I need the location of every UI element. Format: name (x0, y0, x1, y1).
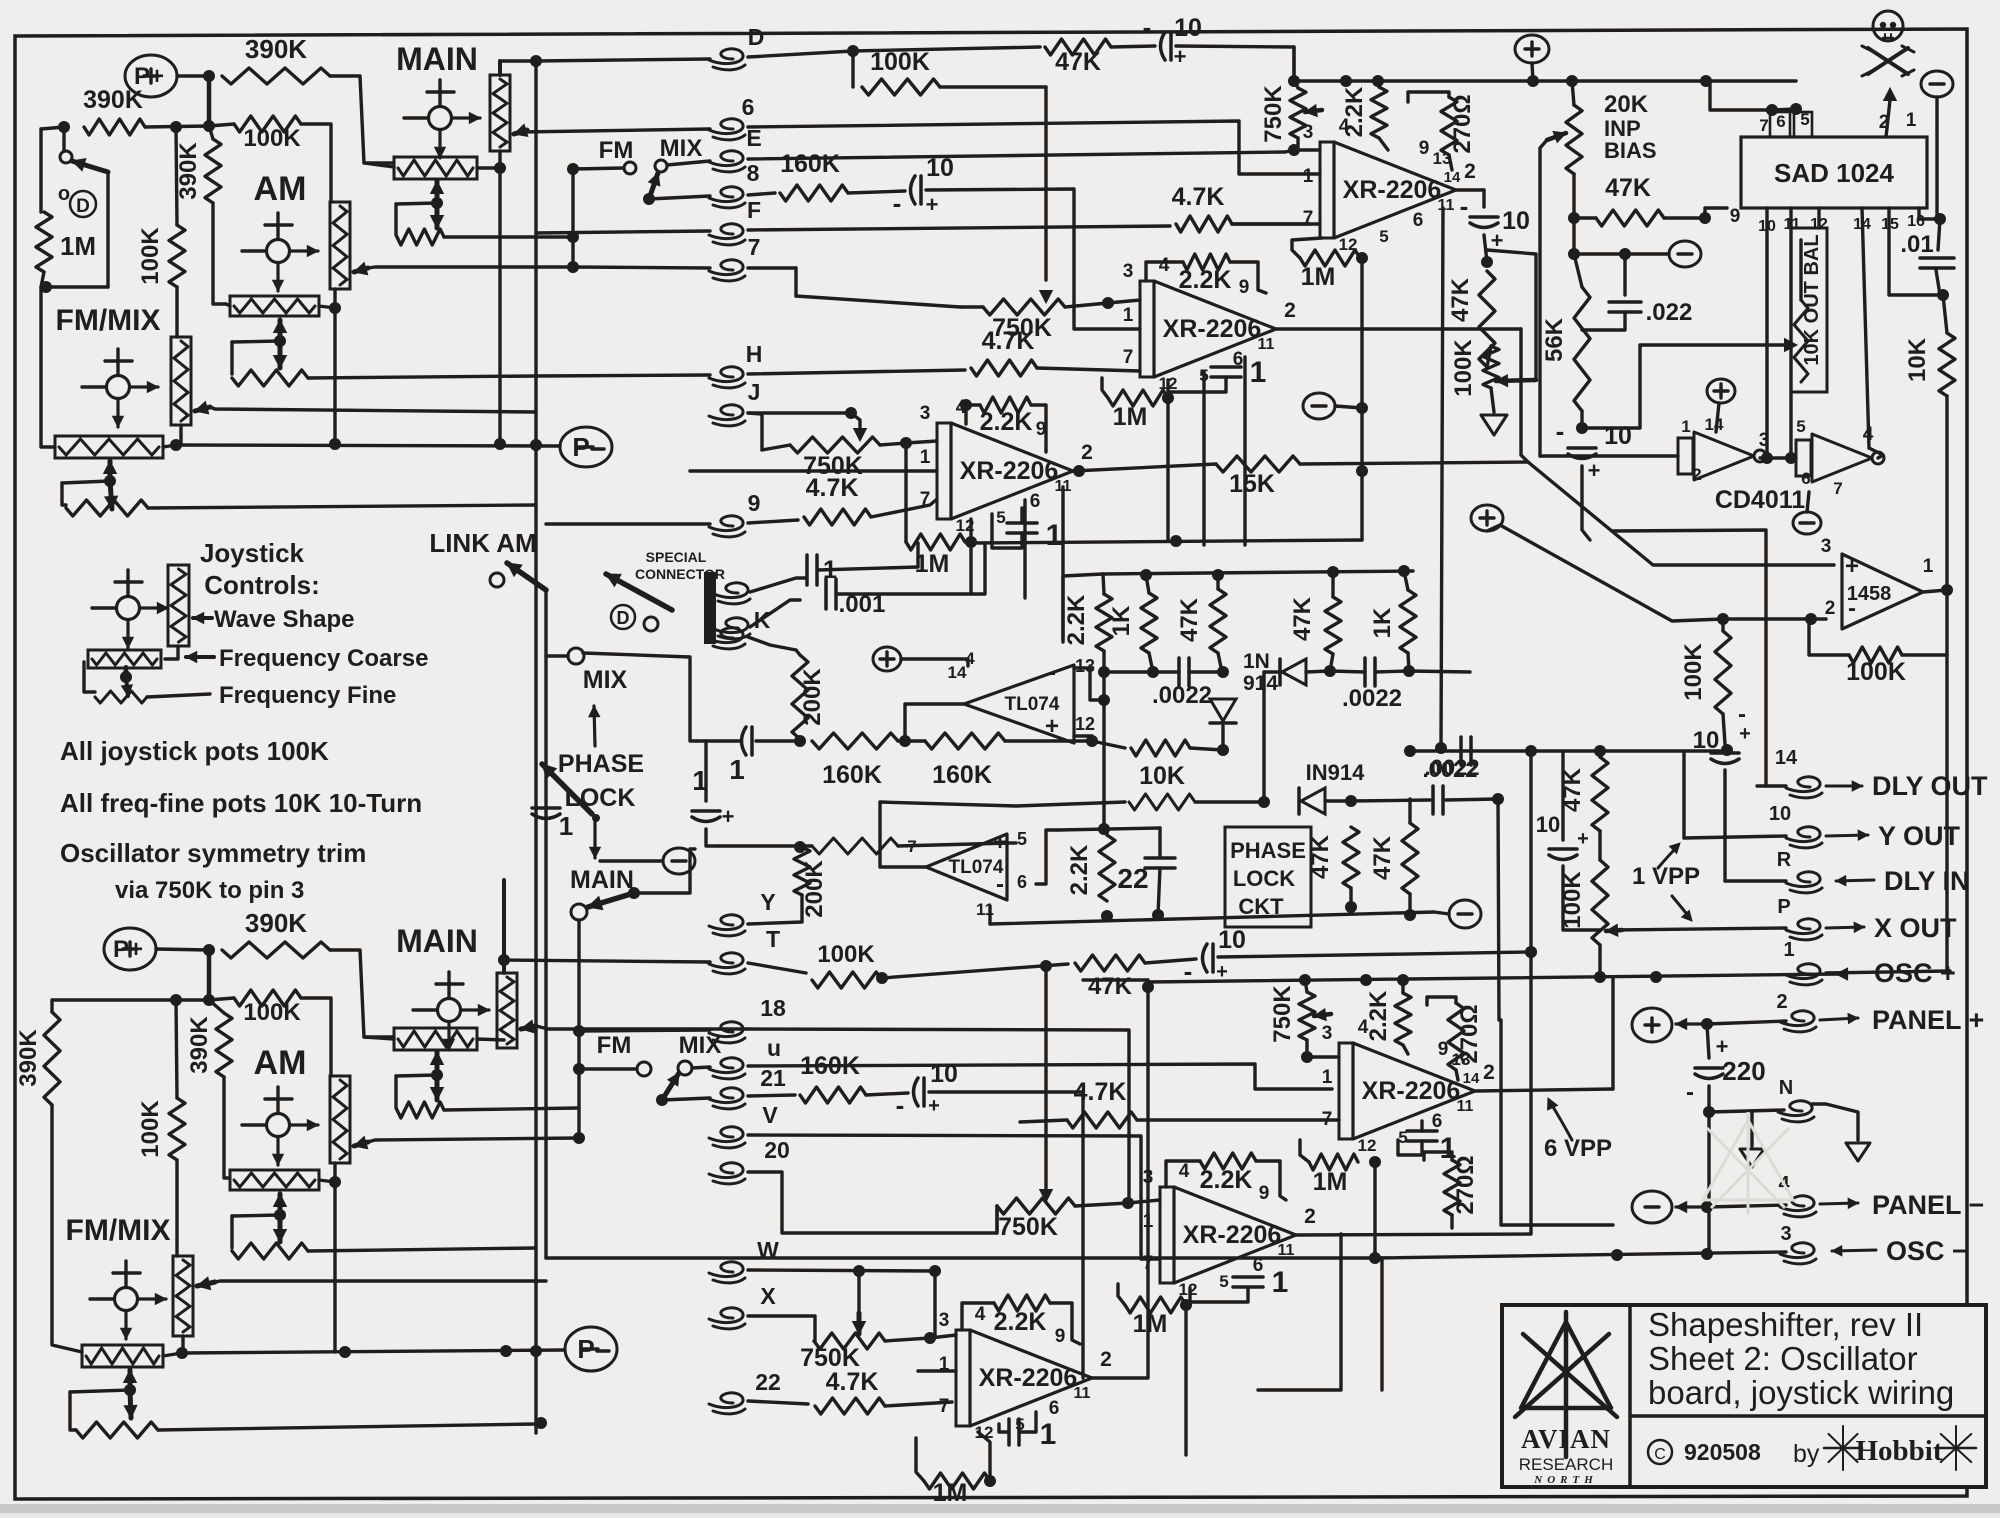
resistor 1M (U1) (1300, 250, 1360, 266)
phase lock bottom bus (990, 912, 1434, 924)
power node P+ (B) (104, 928, 156, 970)
pot MAIN vert wiper arrow (A) (514, 130, 527, 134)
node bus4 (1527, 75, 1539, 87)
wire panel+ row (1707, 1021, 1786, 1024)
wire 100K-Av down to FM/MIX pot (175, 287, 178, 337)
node bank bot3 (1324, 665, 1336, 677)
wire U1 cap down (1482, 190, 1485, 207)
pot 100K-U1 wiper arrow (1496, 380, 1536, 381)
svg-text:100K: 100K (137, 227, 164, 285)
node T2 (1525, 946, 1537, 958)
svg-text:MIX: MIX (583, 666, 628, 694)
wire x1531 down (1529, 751, 1532, 1234)
svg-text:7: 7 (1123, 347, 1134, 368)
wire FM-B to x579 (579, 1067, 637, 1070)
wire 1M loop left side (41, 127, 64, 129)
svg-text:47K: 47K (1176, 597, 1203, 642)
wire dly cap chain (1723, 714, 1725, 744)
wire AM wiper down-arrow (A) (278, 341, 283, 368)
node cap022 (1619, 248, 1631, 260)
op-amp XR-2206 U6 (1339, 1043, 1353, 1139)
svg-text:-: - (1848, 595, 1856, 622)
node osc-c (1701, 1248, 1713, 1260)
connector hook X (709, 1308, 743, 1323)
wire SAD pin11 down (1789, 208, 1792, 452)
wire AM vert pot down (333, 308, 336, 443)
svg-text:1M: 1M (1301, 263, 1336, 291)
resistor 1M (U3) (906, 534, 965, 550)
connector hook H (709, 367, 743, 382)
long vertical wire x546 (544, 592, 547, 1258)
logo star diag2 (1515, 1334, 1609, 1417)
pot 100K FM/MIX vertical (B) (173, 1256, 193, 1336)
arrow MAIN down (593, 818, 596, 858)
wire J-row to FM/MIX wiper (210, 407, 536, 412)
svg-text:1: 1 (1440, 1132, 1457, 1165)
special connector body (704, 572, 716, 644)
svg-text:2: 2 (1081, 441, 1093, 464)
wire XR1 pin11 down (1441, 208, 1443, 748)
wire MAIN pot top to top wire (498, 61, 502, 75)
svg-text:750K: 750K (992, 314, 1052, 342)
wire 100k-r wiper (1612, 928, 1622, 931)
node bank bot1 (1098, 666, 1110, 678)
resistor 2.2K (U2 fb) (1183, 254, 1230, 270)
cap 1 (K row) (750, 727, 754, 755)
svg-text:4.7K: 4.7K (1172, 183, 1225, 211)
svg-text:OSC −: OSC − (1886, 1236, 1968, 1266)
svg-text:E: E (746, 125, 761, 151)
wire 1458 out down (1945, 655, 1948, 971)
cap 1 (U3) (1007, 521, 1037, 525)
wire corner 1341 (1258, 1234, 1341, 1390)
switch MIX contact (568, 648, 584, 664)
wire U5 pin1 stub (918, 1369, 956, 1372)
svg-text:1: 1 (1681, 417, 1690, 436)
node pl2 (1217, 666, 1229, 678)
wire 47K-c bottom (1349, 888, 1352, 908)
svg-text:10: 10 (1218, 926, 1246, 954)
switch MIX contact (A) (655, 160, 667, 172)
svg-text:2.2K: 2.2K (994, 1308, 1047, 1336)
resistor 160K a (812, 733, 898, 749)
op-amp XR-2206 U4 (1160, 1187, 1174, 1283)
resistor 4.7K (F row) (1176, 216, 1232, 232)
connector hook lower (714, 618, 748, 633)
node U2m (1356, 402, 1368, 414)
resistor 2.2K (bank) (1096, 594, 1112, 651)
svg-text:1N: 1N (1243, 650, 1270, 673)
wire FM/MIX loop top (A) (62, 481, 110, 483)
hook PANEL+ (1780, 1011, 1814, 1026)
wire 4.7K-U6 left (1020, 1120, 1067, 1122)
wire MAIN lower loop (A) (396, 204, 397, 237)
svg-text:14: 14 (948, 663, 967, 682)
resistor 1K (bank a) (1141, 593, 1157, 653)
bus P- (A) (176, 445, 560, 446)
svg-text:750K: 750K (800, 1344, 860, 1372)
svg-text:200K: 200K (801, 860, 828, 918)
wire AM-B vert line down (333, 1182, 336, 1352)
resistor 160K (21 row) (800, 1087, 866, 1103)
svg-text:100K: 100K (137, 1100, 164, 1158)
node 56K bot (1576, 422, 1588, 434)
svg-text:390K: 390K (83, 86, 143, 114)
svg-text:100K: 100K (870, 48, 930, 76)
wire P+ to node (177, 74, 209, 77)
svg-text:1M: 1M (60, 231, 96, 261)
svg-text:3: 3 (1780, 1223, 1791, 1245)
svg-text:12: 12 (1075, 714, 1095, 734)
wire 750K-U5 arrow (857, 1313, 862, 1334)
node osc4 (1650, 971, 1662, 983)
connector hook 8 (709, 187, 743, 202)
wire TL074B pin6 (1036, 830, 1058, 884)
wire U2 out down (1521, 329, 1528, 462)
cap .0022 c (1431, 786, 1435, 814)
connector hook Y (709, 915, 743, 930)
resistor 100K (B top horizontal) (234, 990, 301, 1006)
svg-text:BIAS: BIAS (1604, 138, 1657, 163)
cap .0022 a (1177, 658, 1181, 686)
minus node (U2 area) (1303, 393, 1335, 419)
wire 220 chain (1707, 1024, 1709, 1058)
wire cap01 down (1936, 270, 1940, 295)
wire 2.2K-U4 left (1166, 1161, 1200, 1187)
node pnl1 (1701, 1018, 1713, 1030)
pot FM/MIX wiper arrow up (A) (108, 461, 113, 481)
OSC+ bus (1083, 978, 1148, 981)
wire 270-U4 top loop (1424, 1152, 1452, 1160)
wire 10K to diode node (1190, 748, 1223, 750)
wire 2.2K-U2 left (1146, 262, 1183, 281)
wire row D to 47K (853, 47, 1040, 51)
switch lever (A2) (649, 173, 658, 199)
power + (top) (1515, 35, 1549, 63)
cap .0022 b (1363, 658, 1367, 686)
node chain bot (1594, 971, 1606, 983)
node tlA12 (1086, 735, 1098, 747)
wire row802 to right block (1446, 799, 1498, 800)
svg-text:7: 7 (907, 837, 916, 856)
wire 4.7K-H to XR2 pin7 (1037, 368, 1140, 371)
pot 750K (U5) (814, 1333, 885, 1349)
svg-text:TL074: TL074 (1005, 694, 1060, 715)
node plb2 (1152, 909, 1164, 921)
resistor 56K (1574, 287, 1590, 411)
wire 8 row right (926, 189, 1140, 329)
svg-text:MAIN: MAIN (396, 923, 478, 959)
op-amp TL074 B (926, 834, 1007, 900)
wire 47K-sad right (1664, 216, 1705, 219)
svg-text:750K: 750K (998, 1213, 1058, 1241)
svg-text:.0022: .0022 (1342, 685, 1402, 712)
svg-text:10: 10 (1502, 207, 1530, 235)
node osc2 (1360, 974, 1372, 986)
wire TL074B pin11 down (988, 906, 991, 924)
svg-text:3: 3 (1821, 536, 1832, 557)
wire MAIN bottom row right (444, 235, 573, 238)
wire 750K-U2 to pin3 (1065, 303, 1108, 307)
wire U5 output (1092, 987, 1148, 1378)
resistor 2.2K (U5 fb) (994, 1295, 1050, 1311)
node x573 a1 (567, 163, 579, 175)
wire 750K-U1 bottom to pin3 (1296, 138, 1299, 150)
wire 56K top (1574, 254, 1582, 287)
svg-text:1K: 1K (1369, 607, 1396, 638)
wire node B1 down (207, 950, 212, 1000)
wire X OUT (1612, 928, 1786, 930)
wire AM loop top (A) (232, 341, 280, 342)
resistor 100K (A left vertical) (169, 225, 185, 287)
svg-text:SAD 1024: SAD 1024 (1774, 158, 1894, 188)
wire 1K-b bottom (1408, 653, 1409, 671)
wire row802 right (1351, 800, 1430, 801)
resistor 2.2K (U3 fb) (980, 397, 1031, 413)
svg-text:9: 9 (1259, 1183, 1270, 1204)
wire pin3 row U1 (1294, 148, 1320, 151)
wire TL074A pin13 (1074, 668, 1104, 700)
node A3 (58, 121, 70, 133)
wire .0022b (1330, 671, 1365, 672)
svg-text:47K: 47K (1088, 973, 1133, 1000)
wire row E (667, 161, 710, 165)
svg-text:5: 5 (1017, 829, 1027, 849)
svg-text:P: P (577, 1334, 594, 1364)
wire AM lower loop (A) (230, 342, 233, 374)
resistor 200K (K) (792, 655, 808, 739)
svg-text:7: 7 (920, 489, 931, 510)
wire node A1 down (207, 76, 212, 126)
node T1 (876, 972, 888, 984)
svg-text:Controls:: Controls: (204, 570, 320, 600)
wire AM-B pot right to vert pot (319, 1163, 335, 1182)
wire MAIN loop top (A) (396, 203, 437, 204)
wire row D (536, 59, 710, 61)
svg-text:+: + (1577, 828, 1589, 850)
svg-text:4: 4 (1179, 1161, 1190, 1182)
wire J hook to 750K-U3 (748, 413, 762, 414)
svg-text:PHASE: PHASE (1230, 838, 1306, 863)
wire FM/MIX lower loop (A) (62, 483, 66, 505)
pot 750K (U2) (983, 299, 1065, 315)
node A6 (329, 302, 341, 314)
svg-text:270Ω: 270Ω (1449, 94, 1476, 153)
legend pot freq coarse (88, 650, 161, 668)
pot 20K wiper arrow (1547, 133, 1566, 140)
wire 10K-r bottom (1945, 396, 1948, 590)
wire cap1-U5 (999, 1424, 1008, 1432)
capacitor 1 (link) (532, 806, 560, 810)
wire row 6 right (748, 121, 1320, 174)
wire MAIN hpot left lead (364, 163, 394, 167)
arrow 1vpp a (1658, 846, 1678, 868)
svg-text:22: 22 (755, 1369, 781, 1395)
title block divider vertical (1628, 1305, 1632, 1487)
pot 750K (U3) (790, 437, 880, 453)
joystick AM (B) (267, 1114, 290, 1137)
node U1c (1481, 256, 1493, 268)
SAD pin tabs (1770, 112, 1790, 137)
resistor 1M (U6) (1309, 1154, 1358, 1170)
svg-text:o: o (58, 183, 70, 205)
svg-text:D: D (748, 24, 765, 50)
svg-text:3: 3 (939, 1310, 950, 1331)
wire 2.2K-U2 right (1230, 262, 1266, 293)
wire pin5 U2 down (1202, 372, 1205, 545)
svg-text:160K: 160K (780, 150, 840, 178)
wire 390K-Bm top (209, 1000, 224, 1013)
wire x1499 vert (1498, 799, 1499, 1020)
wire D row to bus (1176, 46, 1294, 81)
resistor 1M (U2) (1108, 390, 1168, 406)
wire corner 1382 (1380, 1258, 1383, 1390)
svg-text:+: + (1845, 553, 1859, 580)
wire 750K-U6 top (1305, 980, 1307, 992)
wire T row mid (882, 964, 1068, 978)
svg-text:H: H (746, 341, 763, 367)
node sadt1 (1766, 104, 1778, 116)
node bk1 (1140, 569, 1152, 581)
wire 2.2K-U1 top (1378, 81, 1379, 87)
resistor 390K (A mid vertical) (205, 139, 221, 203)
svg-text:10: 10 (926, 154, 954, 182)
op-amp XR-2206 U3 (937, 423, 951, 519)
node pnl2 (1701, 1201, 1713, 1213)
wire 1M left vertical (39, 129, 42, 212)
wire FM/MIX wiper down arrow (A) (110, 481, 112, 509)
svg-text:K: K (754, 607, 771, 633)
title block divider horizontal (1630, 1414, 1986, 1418)
node bus1 (1288, 75, 1300, 87)
svg-text:N: N (1779, 1077, 1793, 1099)
svg-text:1M: 1M (1313, 1168, 1348, 1196)
cap 220 (1695, 1066, 1723, 1070)
wire FM/MIX-B vpot bottom (181, 1336, 184, 1352)
node A8 (494, 162, 506, 174)
node tlA13 (1098, 694, 1110, 706)
node bus3 (1372, 75, 1384, 87)
node Wr (929, 1265, 941, 1277)
cap 1 (U6) (1407, 1129, 1437, 1133)
svg-text:Shapeshifter, rev II: Shapeshifter, rev II (1648, 1306, 1923, 1343)
wire 18 row right (748, 1029, 1129, 1197)
wire 2.2K-U6 bottom (1403, 1045, 1408, 1054)
wire SAD pins to bus (1710, 81, 1772, 110)
svg-text:1: 1 (729, 754, 745, 785)
resistor 1M (A) (36, 212, 52, 272)
wire 10K row right (1092, 741, 1125, 748)
node sadt2 (1790, 103, 1802, 115)
svg-text:F: F (747, 197, 761, 223)
wire minus tr down (1935, 97, 1938, 219)
wire 18 row left (579, 1030, 710, 1031)
wire to wiper circle (62, 127, 65, 150)
node sad9 (1699, 212, 1711, 224)
node 47kpl (1404, 909, 1416, 921)
svg-text:100K: 100K (1846, 658, 1906, 686)
svg-text:RESEARCH: RESEARCH (1519, 1455, 1613, 1474)
wire corner x1264 (1262, 672, 1265, 802)
wire 1M-U4 right down (1184, 1305, 1187, 1455)
node B13 (500, 1345, 512, 1357)
svg-text:5: 5 (996, 508, 1005, 527)
svg-text:FM: FM (597, 1032, 632, 1059)
pot 750K-U6 wiper arrow (1314, 1014, 1331, 1016)
wire row D right (748, 51, 853, 57)
svg-text:15K: 15K (1229, 470, 1275, 498)
connector hook E (709, 151, 743, 166)
resistor 10K (pl) (1131, 740, 1190, 756)
wire FM/MIX-B pot to bus (163, 1353, 182, 1356)
svg-text:2: 2 (1304, 1205, 1316, 1228)
node row751d (1721, 744, 1733, 756)
wire 47K-sad left (1574, 216, 1596, 219)
wire W branch to 750K-U5 wiper (857, 1271, 860, 1313)
pot AM wiper arrow up (A) (278, 320, 283, 341)
paper edge shading bottom (0, 1504, 2000, 1513)
node cd2 (1785, 452, 1797, 464)
wire U4 output (1296, 1234, 1530, 1235)
wire y out corner (1682, 753, 1685, 838)
wire FM/MIX vpot bottom (179, 425, 182, 443)
resistor 47K (bank b) (1325, 597, 1341, 654)
pot AM horizontal (A) (230, 296, 319, 316)
svg-text:.022: .022 (1646, 299, 1693, 326)
svg-text:22: 22 (1117, 863, 1148, 894)
wire special cap2 right (837, 543, 985, 594)
wire cap022 down (1582, 312, 1625, 330)
op-amp XR-2206 U1 (1320, 142, 1334, 238)
wire to SAD pin9 (1705, 208, 1727, 218)
node B9 (176, 1347, 188, 1359)
node U6 1M right (1369, 1156, 1381, 1168)
hook Y OUT (1786, 827, 1820, 842)
resistor 4.7K (9 row) (804, 509, 871, 525)
power node P- (B) (565, 1327, 617, 1371)
svg-text:.01: .01 (1900, 231, 1933, 258)
node T3 (1040, 960, 1052, 972)
cap .022 (1623, 254, 1626, 295)
wire 160K join (898, 739, 925, 742)
pot 100K-r wiper arrow (1606, 930, 1622, 931)
legend coarse wiper (124, 667, 128, 680)
svg-text:1: 1 (1322, 1067, 1333, 1088)
wire 100K-Bv top (176, 1000, 177, 1098)
wire AM-B loop top (232, 1215, 280, 1216)
svg-text:6: 6 (742, 94, 755, 120)
svg-text:-: - (1048, 659, 1056, 686)
wire 47K top to row (1598, 751, 1601, 757)
resistor 100K (dly vert) (1715, 631, 1731, 714)
wire 100K-Bh left (209, 998, 234, 1000)
wire 2.2K-U5 left (962, 1303, 994, 1330)
svg-text:.0022: .0022 (1422, 757, 1477, 782)
svg-text:100K: 100K (243, 125, 301, 152)
svg-text:-: - (1686, 1079, 1694, 1106)
wire AM bottom row to H-row (308, 376, 536, 378)
wire 750K-U4 left (995, 1206, 998, 1233)
pot AM vert wiper arrow (B) (354, 1142, 368, 1146)
resistor AM bottom (B) (232, 1243, 308, 1259)
wire special cap1 right (818, 543, 918, 570)
svg-text:FM/MIX: FM/MIX (66, 1214, 171, 1247)
pot AM vertical (B) (330, 1076, 350, 1163)
node B5 (170, 994, 182, 1006)
joystick FM/MIX (B) (115, 1288, 138, 1311)
resistor 47K (U1 chain) (1479, 271, 1495, 367)
svg-text:MIX: MIX (660, 135, 703, 162)
